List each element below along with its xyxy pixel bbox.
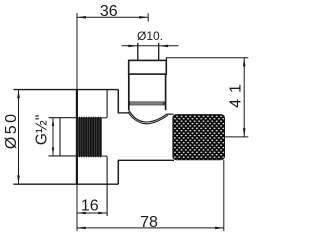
svg-text:41: 41 xyxy=(228,78,245,108)
svg-text:36: 36 xyxy=(100,3,118,20)
svg-text:78: 78 xyxy=(140,214,158,231)
svg-text:G½": G½" xyxy=(33,115,50,146)
svg-text:Ø50: Ø50 xyxy=(3,111,20,149)
svg-text:Ø10.: Ø10. xyxy=(137,29,163,43)
svg-text:16: 16 xyxy=(81,197,99,214)
